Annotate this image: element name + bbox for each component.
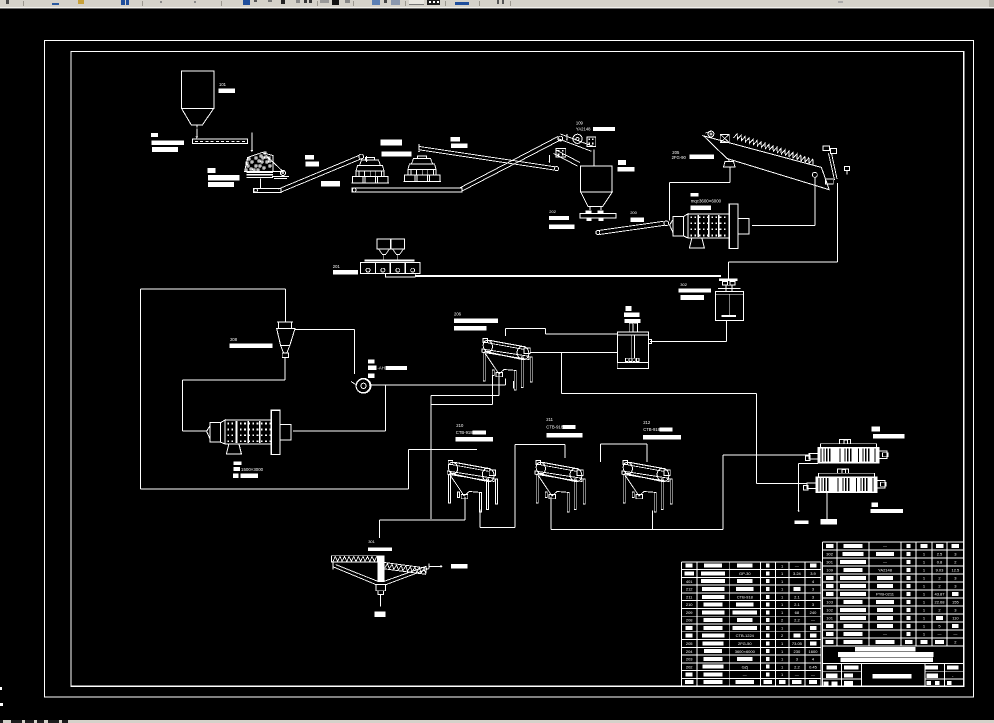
svg-text:210: 210 bbox=[686, 602, 693, 607]
hydrocyclone 208 bbox=[279, 322, 292, 329]
svg-text:1: 1 bbox=[781, 664, 784, 669]
vibrating screen 109 bbox=[573, 134, 582, 143]
svg-text:12.5: 12.5 bbox=[952, 567, 961, 572]
wire sampler to agitation tank 202 bbox=[415, 275, 721, 277]
svg-text:211: 211 bbox=[546, 417, 553, 422]
svg-text:1: 1 bbox=[781, 587, 784, 592]
svg-text:2: 2 bbox=[954, 559, 957, 564]
svg-text:1: 1 bbox=[923, 615, 926, 620]
svg-text:208: 208 bbox=[230, 337, 238, 342]
title block signature labels bbox=[827, 666, 837, 670]
svg-text:240: 240 bbox=[810, 610, 817, 615]
svg-text:4: 4 bbox=[812, 579, 815, 584]
svg-text:3: 3 bbox=[812, 602, 815, 607]
label mqg3600x6000 grate ball mill bbox=[691, 193, 699, 197]
svg-text:212: 212 bbox=[643, 420, 651, 425]
svg-text:1: 1 bbox=[923, 599, 926, 604]
svg-text:302: 302 bbox=[680, 282, 687, 287]
svg-text:1500×3000: 1500×3000 bbox=[241, 467, 264, 472]
svg-text:1: 1 bbox=[923, 607, 926, 612]
spiral classifier 205 2FG-90 bbox=[704, 136, 830, 190]
label thickener underflow bbox=[375, 612, 386, 618]
svg-text:3: 3 bbox=[954, 551, 957, 556]
arrow screen feed drop bbox=[566, 134, 568, 140]
svg-text:5: 5 bbox=[938, 623, 941, 628]
svg-text:1: 1 bbox=[781, 649, 784, 654]
label thickener overflow bbox=[451, 564, 467, 569]
labels right of cone crushers bbox=[450, 137, 460, 142]
svg-text:CTB-918: CTB-918 bbox=[546, 425, 563, 430]
svg-text:3: 3 bbox=[954, 575, 957, 580]
svg-text:2.1: 2.1 bbox=[794, 594, 800, 599]
svg-text:1: 1 bbox=[781, 625, 784, 630]
ball mill 204 mqg3600x6000 bbox=[673, 217, 684, 237]
belt conveyor under jaw crusher bbox=[254, 188, 281, 192]
arrow conveyor head drop bbox=[366, 156, 368, 161]
svg-text:1: 1 bbox=[923, 559, 926, 564]
svg-text:1: 1 bbox=[923, 551, 926, 556]
svg-text:0.45: 0.45 bbox=[809, 664, 818, 669]
wire mill 207 discharge to pump bbox=[369, 384, 505, 386]
inclined belt conveyor 104 to screen bbox=[279, 155, 360, 189]
wire separator 206 feed from top bbox=[505, 328, 507, 336]
svg-text:203: 203 bbox=[686, 657, 693, 662]
inclined belt conveyor 107 to screen 109 bbox=[460, 137, 559, 189]
svg-text:1: 1 bbox=[781, 672, 784, 677]
magnetic separator 210 CTB-918 bbox=[447, 461, 497, 513]
label below conveyor tail bbox=[321, 181, 340, 186]
wire feeder to jaw crusher bbox=[251, 132, 253, 150]
wire fine screen 1 underflow iron concentrate bbox=[799, 463, 818, 465]
wire classifier sand return to ball mill bbox=[729, 167, 731, 183]
fine screen 1 high frequency bbox=[818, 447, 879, 463]
svg-text:2: 2 bbox=[938, 607, 941, 612]
equipment list table right bbox=[822, 541, 964, 543]
belt feeder 102 bbox=[193, 139, 248, 143]
svg-text:—: — bbox=[883, 543, 887, 548]
labels left of feeder bbox=[151, 133, 158, 137]
svg-text:1: 1 bbox=[923, 591, 926, 596]
svg-text:301: 301 bbox=[826, 559, 833, 564]
svg-text:1600: 1600 bbox=[809, 649, 819, 654]
svg-text:YA2148: YA2148 bbox=[576, 127, 591, 132]
wire thickener underflow bbox=[380, 595, 382, 607]
wire mixing tank to separators distribution bbox=[561, 353, 563, 394]
svg-text:mqc3600×6000: mqc3600×6000 bbox=[691, 199, 722, 204]
wire cyclone overflow feed lines to mixing tank bbox=[506, 327, 546, 329]
svg-text:—: — bbox=[795, 672, 799, 677]
classifier overflow spout bbox=[825, 179, 833, 184]
svg-text:1: 1 bbox=[781, 602, 784, 607]
svg-text:109: 109 bbox=[826, 567, 833, 572]
svg-text:—: — bbox=[811, 618, 815, 623]
labels above cone crushers bbox=[381, 140, 402, 146]
svg-text:2FG-90: 2FG-90 bbox=[672, 155, 687, 160]
svg-text:302: 302 bbox=[826, 551, 833, 556]
classifier inner circle right bbox=[812, 172, 817, 177]
classifier left support foot bbox=[728, 159, 730, 162]
svg-text:1: 1 bbox=[781, 594, 784, 599]
svg-text:1: 1 bbox=[923, 583, 926, 588]
svg-text:-AH: -AH bbox=[378, 366, 385, 371]
svg-text:22.68: 22.68 bbox=[934, 599, 945, 604]
cone crusher 105 bbox=[366, 158, 375, 161]
wire separator 206 tailings bbox=[498, 374, 500, 395]
svg-text:9.03: 9.03 bbox=[936, 567, 945, 572]
screen underflow chute bbox=[556, 150, 580, 163]
svg-text:211: 211 bbox=[686, 594, 693, 599]
svg-text:CTB-918: CTB-918 bbox=[456, 430, 473, 435]
svg-text:209: 209 bbox=[686, 610, 693, 615]
svg-text:401: 401 bbox=[686, 579, 693, 584]
svg-text:2: 2 bbox=[781, 618, 784, 623]
svg-text:73.05: 73.05 bbox=[792, 641, 803, 646]
arrow hopper to feeder bbox=[196, 129, 198, 138]
svg-text:—: — bbox=[883, 559, 887, 564]
wire tank 202 to mixing tank bbox=[725, 320, 727, 341]
agitation tank 202 bbox=[715, 292, 743, 321]
fine screen 2 high frequency bbox=[816, 477, 877, 493]
svg-text:3.9: 3.9 bbox=[810, 571, 816, 576]
drawing inner border frame bbox=[71, 52, 964, 687]
wire classifier overflow to agitation tank bbox=[836, 183, 838, 262]
label ball mill 207 bbox=[234, 461, 242, 465]
svg-text:1: 1 bbox=[923, 575, 926, 580]
svg-text:3: 3 bbox=[812, 594, 815, 599]
svg-text:2: 2 bbox=[954, 639, 957, 644]
svg-text:—: — bbox=[883, 631, 887, 636]
svg-text:—: — bbox=[795, 563, 799, 568]
equipment list table left bbox=[681, 561, 821, 563]
svg-text:301: 301 bbox=[368, 539, 375, 544]
svg-text:2.2: 2.2 bbox=[794, 664, 800, 669]
wire thickener overflow arrow bbox=[429, 565, 441, 567]
svg-text:—: — bbox=[743, 672, 747, 677]
left edge specks bbox=[0, 687, 2, 690]
svg-text:3.24: 3.24 bbox=[793, 571, 802, 576]
svg-text:1: 1 bbox=[781, 610, 784, 615]
svg-text:2.1: 2.1 bbox=[794, 602, 800, 607]
svg-text:1: 1 bbox=[781, 657, 784, 662]
svg-text:201: 201 bbox=[333, 264, 341, 269]
cone crusher 106 bbox=[418, 156, 427, 159]
svg-text:—: — bbox=[811, 672, 815, 677]
label slurry pump bbox=[368, 360, 375, 364]
svg-text:GP-30: GP-30 bbox=[739, 571, 751, 576]
automatic sampler 201 bbox=[377, 239, 391, 249]
svg-text:102: 102 bbox=[826, 607, 833, 612]
labels right of jaw crusher bbox=[305, 155, 314, 160]
magnetic separator 206 CTB-1224 bbox=[482, 339, 532, 391]
label fine screen 1 bbox=[872, 427, 880, 432]
label iron concentrate bbox=[795, 520, 809, 524]
svg-text:230: 230 bbox=[794, 649, 801, 654]
svg-text:103: 103 bbox=[826, 599, 833, 604]
svg-text:202: 202 bbox=[686, 664, 693, 669]
svg-text:101: 101 bbox=[826, 615, 833, 620]
svg-text:2: 2 bbox=[938, 583, 941, 588]
mixing tank motor bbox=[625, 306, 631, 311]
svg-text:—: — bbox=[953, 631, 957, 636]
feed boxes above separators 211 212 bbox=[515, 444, 565, 446]
vibrating feeder 203 under bin bbox=[580, 214, 616, 218]
svg-text:1: 1 bbox=[923, 631, 926, 636]
magnetic separator 212 CTB-918 bbox=[622, 461, 672, 513]
wire ball mill discharge to classifier bbox=[752, 224, 815, 226]
svg-text:2: 2 bbox=[781, 633, 784, 638]
svg-text:208: 208 bbox=[686, 618, 693, 623]
slurry pump 2PNJA bbox=[356, 378, 371, 393]
svg-text:212: 212 bbox=[686, 587, 693, 592]
svg-text:110: 110 bbox=[952, 615, 959, 620]
svg-text:200: 200 bbox=[630, 210, 637, 215]
classifier right drive motor bbox=[823, 146, 830, 151]
wire concentrate collector to fine screen 1 bbox=[651, 510, 653, 529]
svg-text:206: 206 bbox=[454, 312, 462, 317]
wire cyclone overflow loop to separator 210 bbox=[285, 289, 287, 322]
thickener 301 bbox=[331, 556, 377, 562]
svg-text:CTB-918: CTB-918 bbox=[737, 594, 754, 599]
belt conveyor under cone crushers bbox=[352, 188, 462, 192]
raw ore bin hopper 101 bbox=[182, 71, 214, 108]
wire collector tailings to thickener bbox=[464, 497, 466, 520]
svg-text:205: 205 bbox=[686, 641, 693, 646]
svg-text:101: 101 bbox=[219, 82, 227, 87]
svg-text:155: 155 bbox=[952, 599, 959, 604]
svg-text:0.8: 0.8 bbox=[937, 559, 943, 564]
svg-text:2: 2 bbox=[938, 575, 941, 580]
wire cyclone underflow to ball mill 207 bbox=[284, 357, 286, 380]
labels below fine screen 2 bbox=[872, 503, 879, 507]
svg-text:2.5: 2.5 bbox=[937, 551, 943, 556]
svg-text:1: 1 bbox=[781, 579, 784, 584]
wire fine screen 2 underflow bbox=[826, 493, 828, 519]
mixing agitation tank 209 bbox=[617, 332, 648, 362]
svg-text:1: 1 bbox=[781, 571, 784, 576]
svg-text:1: 1 bbox=[923, 623, 926, 628]
labels left of jaw crusher bbox=[207, 168, 215, 173]
svg-text:1: 1 bbox=[923, 567, 926, 572]
svg-text:210: 210 bbox=[456, 423, 464, 428]
belt conveyor to ball mill 204 bbox=[599, 221, 664, 230]
svg-text:109: 109 bbox=[576, 120, 584, 125]
svg-text:PYB-0211: PYB-0211 bbox=[876, 591, 895, 596]
svg-text:43.87: 43.87 bbox=[934, 591, 945, 596]
svg-text:3600×6000: 3600×6000 bbox=[735, 649, 756, 654]
svg-text:CTB-918: CTB-918 bbox=[643, 427, 660, 432]
labels right of screen bin bbox=[618, 160, 626, 165]
arrow return conveyor discharge bbox=[418, 151, 420, 153]
wire separator 206 concentrate drop to pump line bbox=[512, 381, 514, 388]
arrow screen left underflow bbox=[548, 155, 550, 162]
svg-text:CTB-1224: CTB-1224 bbox=[736, 633, 755, 638]
wire jaw crusher discharge bbox=[260, 179, 262, 188]
svg-text:68: 68 bbox=[795, 610, 800, 615]
svg-text:YA2148: YA2148 bbox=[878, 567, 893, 572]
svg-text:202: 202 bbox=[549, 209, 556, 214]
wire screen underflow to bin bbox=[593, 150, 595, 166]
ore bin under screen bbox=[581, 166, 613, 192]
magnetic separator 211 CTB-918 bbox=[535, 461, 585, 513]
title block bbox=[822, 646, 964, 687]
svg-text:—: — bbox=[938, 631, 942, 636]
svg-text:3: 3 bbox=[812, 587, 815, 592]
svg-text:204: 204 bbox=[686, 649, 693, 654]
svg-text:GZj: GZj bbox=[742, 664, 749, 669]
svg-text:2.2: 2.2 bbox=[794, 618, 800, 623]
jaw crusher 103 bbox=[247, 165, 250, 168]
svg-text:3: 3 bbox=[954, 607, 957, 612]
svg-text:4: 4 bbox=[812, 657, 815, 662]
svg-text:2FG-50: 2FG-50 bbox=[738, 641, 752, 646]
svg-text:3: 3 bbox=[954, 583, 957, 588]
svg-text:3: 3 bbox=[796, 657, 799, 662]
svg-text:1: 1 bbox=[781, 641, 784, 646]
ball mill 207 1500x3000 bbox=[210, 423, 221, 443]
label tailings bar under screen2 bbox=[821, 519, 838, 525]
svg-text:-: - bbox=[952, 674, 954, 679]
inclined return conveyor 108 from screen bbox=[420, 147, 556, 167]
svg-text:1: 1 bbox=[781, 563, 784, 568]
wire pump to cyclone feed bbox=[302, 329, 355, 331]
